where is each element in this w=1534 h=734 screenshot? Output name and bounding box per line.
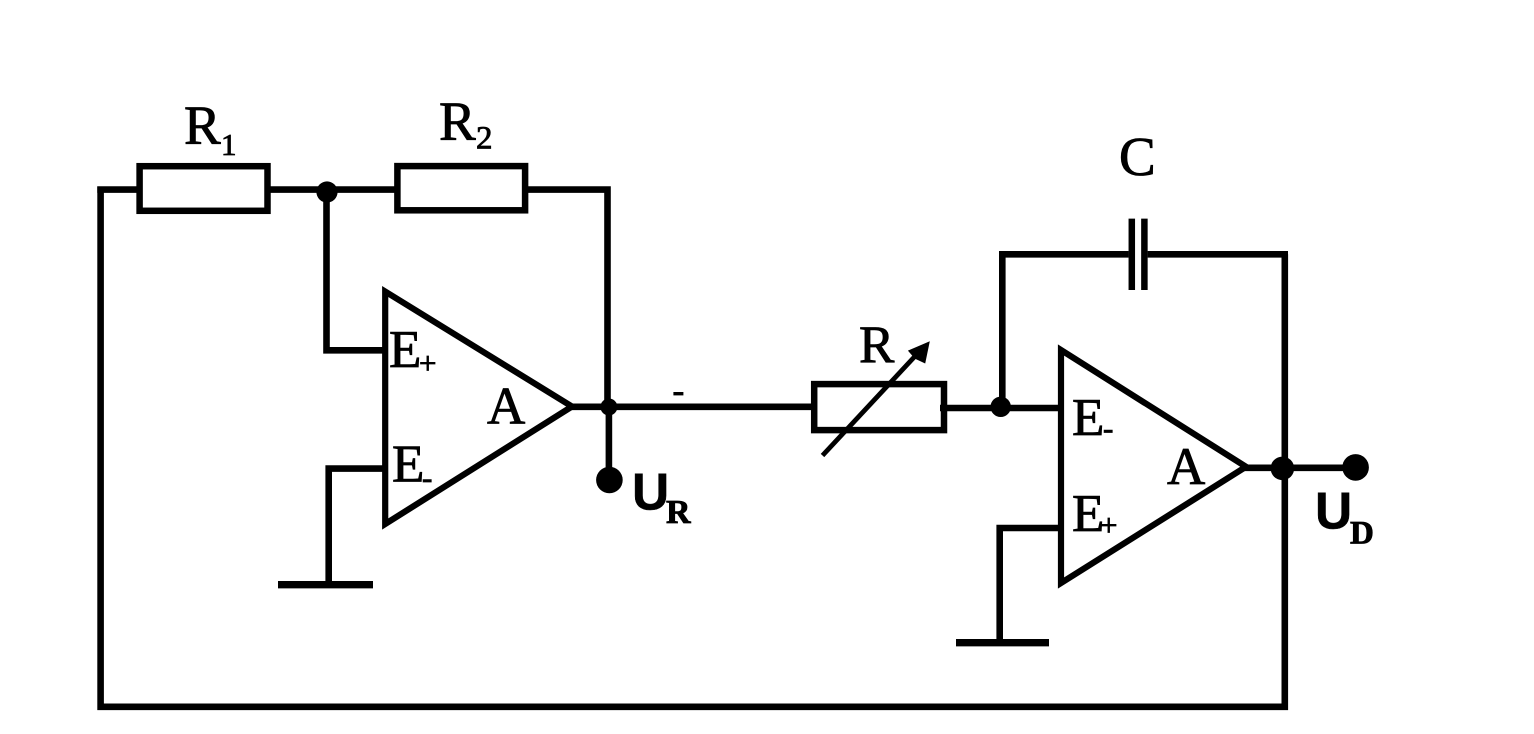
ground (op-amp U2)	[956, 639, 1049, 646]
svg-text:D: D	[1350, 516, 1374, 552]
svg-text:R: R	[666, 494, 691, 531]
wire: junction up and right to capacitor C	[1002, 254, 1128, 409]
capacitor C (left plate)	[1129, 219, 1136, 290]
node: junction at U1 output	[600, 399, 617, 416]
wire: node down to E+ input of U1	[327, 190, 386, 350]
wire: big feedback loop (left vertical, bottom, right vertical)	[101, 187, 1285, 707]
svg-text:+: +	[419, 346, 436, 381]
svg-text:1: 1	[221, 127, 237, 162]
svg-text:+: +	[1100, 508, 1117, 543]
svg-text:A: A	[1167, 438, 1205, 496]
svg-text:U: U	[632, 463, 669, 521]
wire: E+ of U2 left and down to ground	[1000, 528, 1061, 643]
svg-text:R: R	[184, 95, 221, 156]
ground (op-amp U1)	[278, 581, 373, 588]
wire: stem down to UR terminal	[606, 407, 613, 470]
terminal UD (dot)	[1342, 454, 1369, 481]
wire: E- input of U1 left and down to ground	[329, 469, 385, 585]
svg-text:A: A	[487, 378, 525, 436]
arrow of variable resistor R	[823, 353, 919, 456]
svg-text:R: R	[859, 316, 895, 374]
svg-text:E: E	[1072, 389, 1104, 447]
op-amp U2	[1061, 350, 1246, 583]
wire: left lead into R1	[97, 186, 140, 193]
wire: R2 right lead, corner down to op-amp U1 output	[525, 190, 607, 407]
wire: U1 output to variable resistor R	[568, 403, 814, 410]
node A (junction dot between R1 and R2)	[316, 181, 337, 202]
svg-text:-: -	[1103, 411, 1113, 446]
resistor R (variable)	[814, 384, 944, 430]
wire: R1 to R2 through node	[268, 186, 398, 193]
minus mark above wire	[673, 392, 683, 395]
svg-text:C: C	[1119, 126, 1156, 187]
svg-text:2: 2	[476, 121, 493, 157]
wire: R to E- of op-amp U2	[940, 405, 1063, 412]
op-amp U1	[385, 292, 572, 525]
svg-text:-: -	[422, 460, 432, 495]
node: junction at U2 output	[1271, 457, 1295, 481]
svg-text:R: R	[439, 91, 476, 152]
resistor R2	[397, 166, 525, 210]
capacitor C (right plate)	[1141, 219, 1148, 290]
terminal UR (dot)	[596, 467, 623, 494]
wire: capacitor right plate to right vertical	[1148, 251, 1288, 258]
svg-text:E: E	[389, 321, 421, 379]
wire: U2 output to UD terminal	[1242, 464, 1345, 471]
svg-text:U: U	[1315, 482, 1352, 540]
resistor R1	[140, 166, 268, 211]
node: junction at U2 inverting input	[991, 397, 1011, 417]
svg-text:E: E	[392, 436, 424, 494]
